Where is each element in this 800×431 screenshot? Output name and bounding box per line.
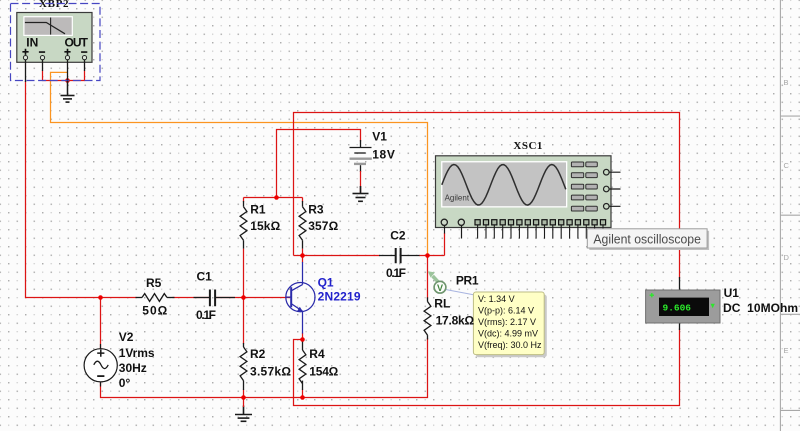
resistor R1 15k <box>240 201 247 249</box>
svg-text:Agilent: Agilent <box>445 194 470 203</box>
wire: collector node to C2 to output node, scope lead <box>294 233 445 256</box>
svg-text:DC 10MOhm: DC 10MOhm <box>723 301 798 315</box>
svg-text:18V: 18V <box>372 148 395 162</box>
wire: VCC from V1 to R1/R3 <box>277 130 361 198</box>
wire: collector riser to top line to U1 <box>294 113 680 406</box>
svg-text:30Hz: 30Hz <box>119 361 147 375</box>
svg-text:15kΩ: 15kΩ <box>250 219 280 233</box>
wire: V1 to ground <box>360 171 362 194</box>
svg-text:V(freq): 30.0 Hz: V(freq): 30.0 Hz <box>478 340 542 350</box>
svg-text:R2: R2 <box>250 347 266 361</box>
svg-text:V2: V2 <box>119 330 134 344</box>
svg-text:V(rms): 2.17 V: V(rms): 2.17 V <box>478 317 536 327</box>
svg-text:Agilent oscilloscope: Agilent oscilloscope <box>593 232 701 247</box>
svg-text:V1: V1 <box>372 130 387 144</box>
svg-text:1Vrms: 1Vrms <box>119 346 155 360</box>
svg-text:V(dc): 4.99 mV: V(dc): 4.99 mV <box>478 328 538 338</box>
ground under V1 <box>353 186 369 201</box>
wire: XBP2 IN+ to input node <box>26 81 101 298</box>
selection dashed box <box>11 4 101 81</box>
svg-text:R3: R3 <box>308 203 324 217</box>
svg-text:0°: 0° <box>119 376 131 390</box>
resistor RL 17.8k <box>424 297 431 339</box>
svg-text:B: B <box>784 78 789 87</box>
multimeter U1 <box>646 277 720 330</box>
svg-text:C: C <box>784 161 790 170</box>
svg-text:C2: C2 <box>390 229 406 243</box>
svg-text:V: V <box>437 283 443 293</box>
svg-text:9.606: 9.606 <box>663 302 692 313</box>
wire: R1/R3 top bar <box>244 198 303 298</box>
sheet border <box>780 0 800 431</box>
svg-text:2N2219: 2N2219 <box>318 290 361 304</box>
instrument XBP2 bode plotter <box>17 13 92 96</box>
svg-text:3.57kΩ: 3.57kΩ <box>250 365 291 379</box>
svg-text:154Ω: 154Ω <box>309 365 338 379</box>
svg-text:50Ω: 50Ω <box>142 303 167 317</box>
resistor R5 50ohm <box>136 294 175 302</box>
wire: bode OUT+ orange to output node <box>51 72 428 254</box>
svg-text:RL: RL <box>434 296 450 310</box>
svg-text:U1: U1 <box>724 286 740 300</box>
wire: V2 branch and ground rail <box>101 298 428 398</box>
svg-text:IN: IN <box>26 35 38 49</box>
svg-text:357Ω: 357Ω <box>308 219 338 233</box>
transistor Q1 2N2219 <box>286 262 315 334</box>
wire: collector stub below node <box>302 256 304 340</box>
svg-text:R1: R1 <box>250 203 266 217</box>
svg-text:R5: R5 <box>146 276 162 290</box>
svg-text:OUT: OUT <box>64 35 88 49</box>
source V2 <box>84 344 117 387</box>
wire: R2 branch <box>243 298 245 398</box>
resistor R2 3.57k <box>240 343 247 390</box>
probe data box <box>473 292 546 357</box>
svg-text:C1: C1 <box>197 270 213 284</box>
tooltip Agilent oscilloscope <box>587 229 709 250</box>
probe PR1 <box>428 271 474 295</box>
svg-text:PR1: PR1 <box>456 273 479 287</box>
resistor R3 357ohm <box>299 201 306 249</box>
resistor R4 154ohm <box>299 340 306 391</box>
wire: RL branch <box>427 256 429 299</box>
svg-text:XBP2: XBP2 <box>39 0 69 10</box>
svg-text:Q1: Q1 <box>318 276 334 290</box>
svg-text:17.8kΩ: 17.8kΩ <box>436 314 475 328</box>
capacitor C2 0.1F <box>379 248 420 263</box>
svg-text:0.1F: 0.1F <box>386 266 406 280</box>
Q1 labels <box>318 276 361 304</box>
svg-text:V: 1.34 V: V: 1.34 V <box>478 294 515 304</box>
wire: XBP2 IN- and OUT- to ground <box>43 71 85 81</box>
battery V1 18V <box>350 140 372 172</box>
svg-text:0.1F: 0.1F <box>196 308 216 322</box>
wire: R4 branch <box>302 390 304 398</box>
ground under R2 <box>235 406 252 422</box>
svg-text:E: E <box>784 346 789 355</box>
instrument XSC1 oscilloscope <box>436 156 621 239</box>
capacitor C1 0.1F <box>194 290 236 307</box>
wire: signal row V2/R5/C1/base <box>101 297 291 299</box>
svg-text:R4: R4 <box>309 347 325 361</box>
svg-text:D: D <box>784 253 790 262</box>
svg-text:XSC1: XSC1 <box>513 140 542 152</box>
svg-text:V(p-p): 6.14 V: V(p-p): 6.14 V <box>478 305 534 315</box>
ground below XBP2 <box>61 81 75 103</box>
